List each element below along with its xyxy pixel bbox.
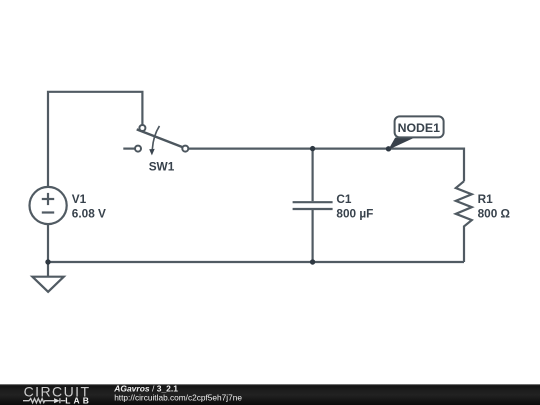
svg-text:800 µF: 800 µF — [336, 206, 373, 220]
svg-text:LAB: LAB — [65, 395, 92, 405]
svg-text:800 Ω: 800 Ω — [478, 207, 510, 221]
svg-text:C1: C1 — [336, 192, 352, 206]
svg-text:R1: R1 — [478, 192, 494, 206]
svg-text:V1: V1 — [72, 192, 87, 206]
svg-text:NODE1: NODE1 — [398, 121, 441, 135]
svg-text:http://circuitlab.com/c2cpf5eh: http://circuitlab.com/c2cpf5eh7j7ne — [114, 393, 242, 403]
svg-text:SW1: SW1 — [149, 159, 175, 173]
svg-text:6.08 V: 6.08 V — [72, 207, 106, 221]
